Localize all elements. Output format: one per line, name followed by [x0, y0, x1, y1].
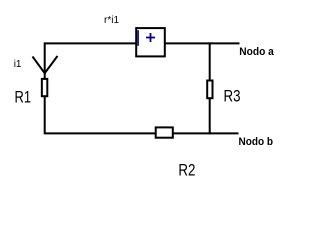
- plus sign (blue): [146, 33, 155, 42]
- svg-text:Nodo b: Nodo b: [239, 136, 274, 148]
- wire: R1 bottom lead + bottom-left horizontal: [45, 96, 156, 133]
- svg-text:R3: R3: [224, 88, 241, 106]
- svg-text:R1: R1: [15, 89, 32, 107]
- svg-text:R2: R2: [178, 162, 195, 180]
- wire: R3 top lead: [209, 42, 211, 81]
- polarity bar (blue): [137, 30, 139, 46]
- svg-text:r*i1: r*i1: [104, 15, 119, 26]
- svg-text:Nodo a: Nodo a: [239, 46, 274, 58]
- dependent source U1: controlled voltage source r*i1: [136, 28, 165, 56]
- wire: top-right horizontal (source box to Nodo a): [165, 42, 240, 44]
- resistor R1: [42, 79, 47, 96]
- resistor R2: [156, 127, 173, 137]
- wire: bottom-right horizontal (R2 to Nodo b): [173, 132, 239, 134]
- wire: R3 bottom lead: [209, 98, 211, 134]
- wire: left vertical top + top-left horizontal (R1 to source box): [45, 43, 136, 78]
- svg-text:i1: i1: [14, 59, 22, 70]
- resistor R3: [207, 81, 212, 99]
- current arrow i1: [33, 56, 58, 73]
